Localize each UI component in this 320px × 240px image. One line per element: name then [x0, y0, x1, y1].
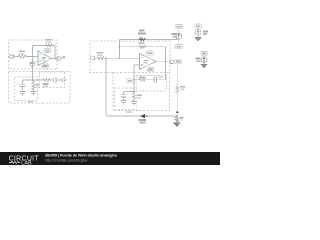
ground below R3 — [31, 92, 37, 96]
output terminal L1 — [57, 57, 62, 60]
label R11 value — [180, 117, 184, 119]
label R7 value — [139, 42, 145, 44]
node: inverting input junction — [32, 56, 34, 58]
node: bottom junction tick — [176, 112, 178, 114]
label R5 value — [97, 52, 104, 54]
annotation box L2a (parallel RC sub-box) — [15, 77, 38, 101]
resistor R7 — [138, 45, 147, 48]
label OA2 positive supply pill — [146, 51, 154, 55]
resistor R1 — [17, 55, 28, 58]
current source I1 — [176, 33, 182, 39]
op-amp OA1 — [38, 51, 52, 66]
label R8 value — [139, 76, 145, 78]
input terminal TP1 — [9, 55, 14, 58]
wire feedback right vertical x165.5 — [165, 47, 167, 80]
resistor R8 — [139, 78, 147, 81]
wire current source to pill — [178, 39, 180, 44]
op-amp OA2 — [140, 54, 157, 70]
label R1 value — [19, 51, 25, 53]
node: bottom junction — [176, 115, 178, 117]
ground below V1 — [195, 38, 201, 41]
capacitor C2 — [53, 77, 55, 83]
label output pill — [175, 59, 182, 63]
wire input to R1 — [14, 56, 18, 58]
node: riser junction — [105, 57, 107, 59]
node: R7 junction — [119, 46, 121, 48]
label OA1 negative supply pill — [42, 64, 49, 68]
ground below C4 — [121, 101, 127, 105]
capacitor C3 — [153, 77, 155, 83]
wire pill to V1 — [197, 28, 199, 29]
wire bottom return riser — [106, 58, 108, 116]
wire bottom return horizontal — [108, 115, 178, 117]
resistor R11 — [175, 117, 178, 122]
wire output pill to R10 — [176, 64, 178, 86]
wire pill to V2 — [203, 56, 205, 57]
label OA1 positive supply pill — [44, 49, 51, 53]
resistor R5 — [96, 57, 105, 60]
label R9 value — [137, 94, 143, 96]
svg-text:38c059 | Puente de Wein diseño: 38c059 | Puente de Wein diseño analogico — [45, 154, 118, 158]
annotation box M1 (series RC sub-box) — [136, 76, 167, 92]
capacitor C1 — [22, 80, 24, 84]
wire junction to R11 — [176, 115, 178, 118]
node: v+ junction — [133, 79, 135, 81]
wire R4 to C2 — [51, 79, 54, 81]
label V1 value — [203, 31, 208, 33]
resistor R4 — [42, 78, 51, 81]
ground below R9 — [131, 102, 137, 106]
voltage source V1 — [195, 30, 201, 36]
wire v+ to M1 — [134, 79, 139, 81]
wire OA2 output — [156, 61, 170, 63]
node: M2 tee junction — [133, 91, 135, 93]
annotation box L1 (left amplifier block) — [9, 40, 58, 69]
wire feedback vertical x119.5 — [119, 40, 121, 59]
wire R10 to bottom — [176, 93, 178, 116]
terminal stub L2b — [62, 79, 66, 81]
wire V1 to ground — [197, 35, 199, 37]
label OA2 negative supply pill — [148, 67, 154, 71]
resistor R3 — [32, 80, 35, 91]
node R6 junction tick — [139, 37, 142, 38]
annotation box M2 (parallel RC sub-box) — [115, 88, 137, 110]
label load net pill top — [175, 24, 182, 28]
wire R5 to op-amp — [105, 57, 140, 59]
wire R8 to C3 — [147, 79, 154, 81]
label current annotation — [139, 119, 147, 121]
annotation box L2 (left RC network block) — [9, 72, 71, 104]
wire riser from inverting node into L2 — [32, 57, 34, 81]
wire input to R5 — [95, 57, 97, 59]
footer bar — [0, 152, 220, 165]
current annotation arrow — [140, 114, 145, 118]
label R6 value — [139, 30, 145, 32]
svg-text:LAB: LAB — [21, 160, 32, 165]
wire M2 tee — [124, 91, 135, 93]
label node voltage under M2 — [126, 111, 132, 113]
wire R7 horizontal — [120, 46, 166, 48]
wire feedback horizontal — [33, 45, 56, 47]
node: output junction L1 — [54, 58, 56, 60]
label OA1 noninverting pill — [36, 60, 39, 62]
label node voltage under L2a — [28, 101, 34, 103]
label R2 value — [45, 39, 52, 41]
resistor R2 — [45, 44, 54, 47]
label R10 value — [180, 86, 186, 88]
wire M2 entry — [133, 88, 135, 93]
label V1 net pill — [195, 24, 202, 28]
wire OA2 + input — [134, 65, 140, 88]
capacitor C4 — [123, 92, 125, 95]
label V2 value — [196, 58, 201, 60]
resistor R9 — [132, 93, 135, 101]
wire top feedback horizontal — [120, 39, 178, 41]
resistor R6 — [139, 38, 146, 40]
output terminal M — [170, 60, 174, 63]
node: output junction — [165, 61, 167, 63]
wire R1 to op-amp — [28, 56, 39, 58]
wire tee to R4 — [33, 79, 43, 81]
label mid net pill — [175, 44, 182, 48]
annotation box L2b (series RC sub-box) — [40, 72, 65, 88]
wire feedback to output — [54, 46, 56, 59]
label v+ pill — [127, 79, 134, 83]
voltage source V2 — [201, 57, 207, 63]
label R3 value — [36, 84, 40, 86]
resistor R10 — [176, 85, 179, 93]
node: L2 tee — [32, 79, 34, 81]
wire tee to C1 — [23, 79, 33, 81]
node label A — [63, 56, 66, 59]
input terminal TP2 — [90, 57, 95, 60]
node: feedback junction on input line — [119, 57, 121, 59]
wire OA1 output — [52, 58, 58, 60]
annotation box M0 (lower network block) — [113, 73, 170, 111]
ground below R11 — [174, 122, 180, 127]
annotation box M top (main amplifier block) — [90, 41, 170, 73]
wire C3 to right vertical — [157, 79, 166, 81]
label V2 net pill — [201, 51, 208, 55]
ground below C1 — [20, 92, 26, 96]
ground below V2 — [201, 65, 207, 68]
label R4 value — [43, 83, 49, 85]
label C3 value — [158, 76, 163, 78]
label I1 value — [172, 33, 177, 35]
wire pill to current source — [178, 29, 180, 34]
wire feedback vertical left — [32, 46, 34, 57]
CircuitLab logo — [9, 155, 40, 166]
svg-text:http://circuitlab.com/c8hq2kw: http://circuitlab.com/c8hq2kw — [45, 158, 88, 162]
wire V2 to ground — [203, 63, 205, 65]
